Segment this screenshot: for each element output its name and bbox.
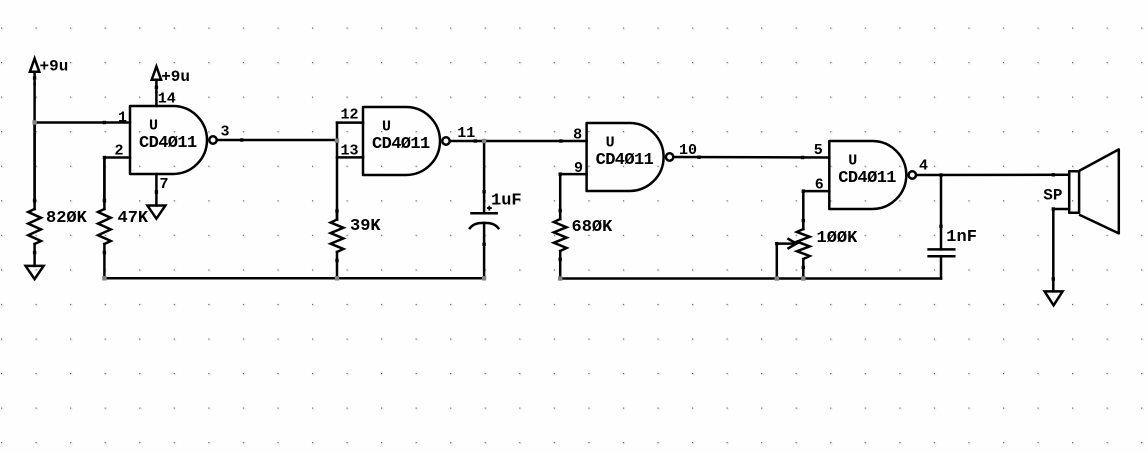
wire speaker negative terminal to ground — [1052, 207, 1070, 291]
pot wiper arrow — [775, 239, 796, 279]
svg-text:47K: 47K — [118, 209, 149, 228]
svg-text:SP: SP — [1043, 187, 1062, 205]
svg-text:4: 4 — [919, 158, 928, 175]
svg-text:14: 14 — [158, 91, 176, 108]
wire U2a output to U2b pin 5 — [673, 156, 829, 159]
svg-text:1uF: 1uF — [491, 192, 522, 211]
wire +9v rail down to 820K and junction — [33, 84, 36, 202]
resistor R4 680K — [554, 209, 567, 279]
power +9v symbol left — [30, 58, 68, 85]
svg-text:CD4Ø11: CD4Ø11 — [139, 134, 197, 153]
wire pin 9 stub to 680K — [560, 174, 586, 219]
ground under pin 7 — [147, 206, 165, 219]
svg-text:1: 1 — [118, 110, 127, 127]
svg-text:8: 8 — [573, 126, 582, 143]
svg-text:68ØK: 68ØK — [572, 218, 614, 237]
svg-text:1ØØK: 1ØØK — [817, 229, 859, 248]
svg-text:13: 13 — [341, 143, 359, 160]
svg-text:CD4Ø11: CD4Ø11 — [838, 169, 896, 188]
ground under speaker — [1045, 291, 1063, 305]
svg-text:U: U — [606, 135, 615, 152]
svg-text:+9u: +9u — [161, 68, 190, 86]
svg-text:3: 3 — [221, 124, 230, 141]
svg-text:1nF: 1nF — [946, 228, 977, 247]
node rail junction 39K — [335, 276, 339, 280]
wire left ground rail — [104, 277, 484, 280]
svg-text:CD4Ø11: CD4Ø11 — [372, 135, 430, 154]
node rail corner 680K — [558, 276, 562, 280]
node junction +9v / pin1 / 820K — [32, 120, 36, 124]
wire U1a output to U1b inputs — [217, 139, 337, 142]
svg-text:11: 11 — [457, 125, 475, 142]
wire pin 14 stub — [155, 92, 158, 106]
svg-text:U: U — [149, 118, 158, 135]
svg-text:7: 7 — [160, 176, 169, 193]
op U1b CD4011 NAND gate 2 — [363, 107, 450, 175]
svg-text:12: 12 — [341, 107, 359, 124]
node rail corner 47K — [102, 276, 106, 280]
ground under 820K — [26, 266, 44, 279]
node rail corner 1uF — [482, 276, 486, 280]
speaker SP — [1069, 149, 1119, 233]
wire to pin 1 of U1 — [35, 121, 130, 124]
wire input tie pins 12/13 down to 39K — [336, 123, 339, 220]
op U1c CD4011 NAND gate 3 — [587, 123, 674, 191]
resistor R5 100K potentiometer — [797, 219, 810, 279]
svg-text:39K: 39K — [350, 217, 381, 236]
wire U1b output to junction and U2a pin 8 — [450, 140, 587, 143]
wire pin 6 stub down to pot — [803, 191, 829, 229]
op U1a CD4011 NAND gate 1 — [130, 106, 217, 174]
node junction U1b input tie — [335, 138, 339, 142]
node rail junction pot wiper — [775, 276, 779, 280]
resistor R2 47K — [98, 158, 111, 279]
capacitor C2 1nF — [929, 249, 955, 278]
wire right ground rail — [560, 277, 941, 280]
wire junction down to 1uF — [483, 141, 486, 213]
resistor R1 820K — [28, 123, 41, 266]
wire pin 7 stub to ground — [155, 174, 158, 206]
op U2b CD4011 NAND gate 4 — [829, 141, 916, 209]
node rail junction pot — [801, 276, 805, 280]
svg-text:82ØK: 82ØK — [46, 209, 88, 228]
node junction U1b output / 1uF — [482, 139, 486, 143]
wire pin 2 stub to 47K — [104, 158, 130, 203]
svg-text:U: U — [382, 119, 391, 136]
wire U2b output to speaker — [916, 174, 1069, 177]
svg-text:CD4Ø11: CD4Ø11 — [596, 151, 654, 170]
capacitor C1 1uF polarized — [470, 206, 498, 279]
power +9v symbol at pin 14 — [152, 67, 190, 93]
svg-text:U: U — [848, 153, 857, 170]
wire junction down to 1nF — [940, 175, 943, 249]
resistor R3 39K — [331, 209, 344, 278]
svg-text:6: 6 — [815, 177, 824, 194]
svg-text:+9u: +9u — [40, 58, 69, 76]
svg-text:5: 5 — [814, 142, 823, 159]
svg-text:2: 2 — [114, 142, 123, 159]
